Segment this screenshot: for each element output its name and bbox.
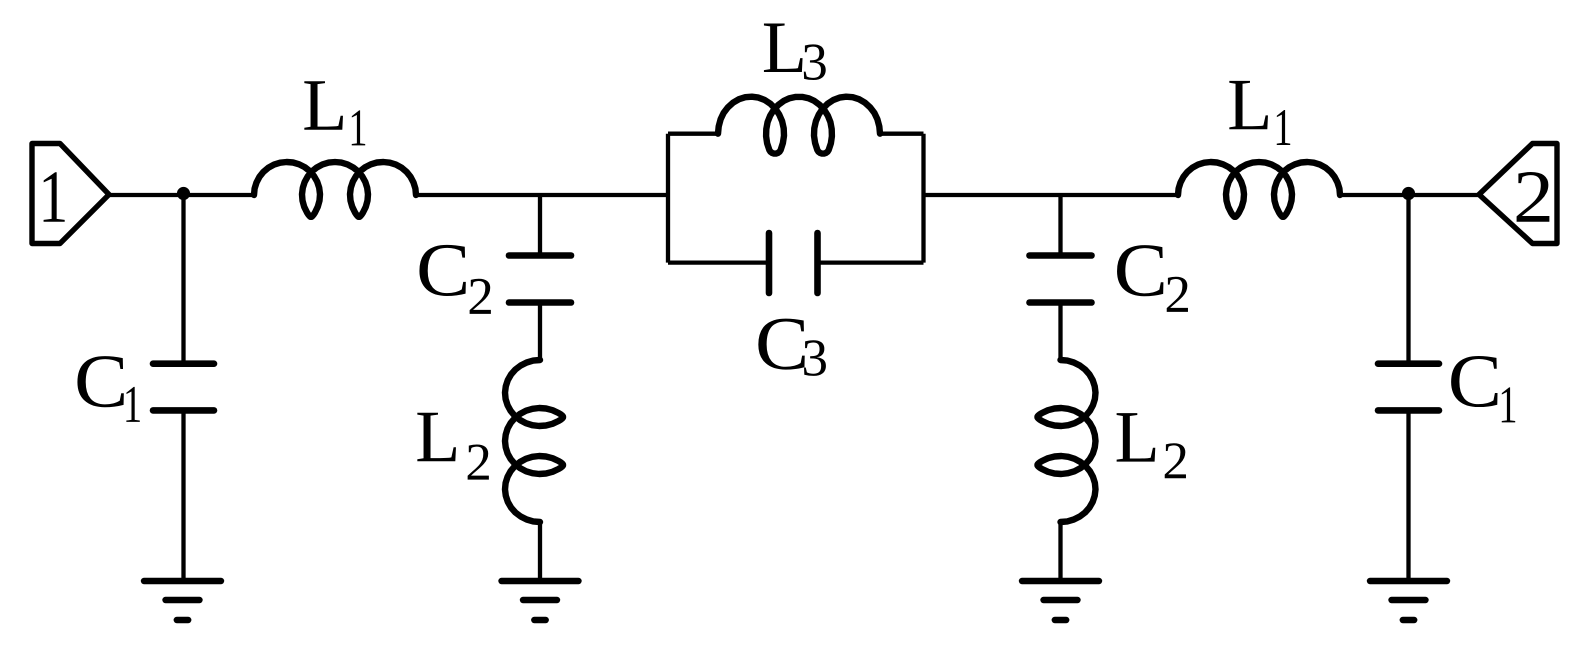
- capacitor C3 right plate: [814, 233, 821, 293]
- label C1 left: [77, 356, 123, 407]
- tank box bottom edge left part: [668, 260, 769, 264]
- label C2 right: [1117, 245, 1163, 296]
- port 2 symbol: [1479, 144, 1557, 244]
- label C2 left: [419, 245, 465, 296]
- capacitor C1 right bottom plate: [1378, 407, 1439, 414]
- capacitor C2 right bottom plate: [1030, 299, 1092, 306]
- wire: L1 to tank box left: [416, 193, 668, 197]
- node junction dot left (port1 node): [177, 187, 190, 200]
- port 1 numeral 1: [44, 172, 65, 222]
- label L3: [764, 24, 803, 72]
- wire: C1 left stub from node: [181, 195, 185, 364]
- port 1 symbol: [32, 144, 109, 244]
- label L1 left: [304, 81, 343, 129]
- capacitor C3 left plate: [766, 233, 773, 293]
- capacitor C1 right top plate: [1378, 360, 1439, 367]
- wire: C1 right to ground: [1406, 410, 1410, 581]
- tank box left edge: [666, 134, 670, 263]
- ground under C1 right: [1370, 578, 1447, 584]
- wire: C2 left upper stub: [538, 195, 542, 256]
- inductor L2 right coil: [1038, 360, 1096, 522]
- ground under L2 right: [1022, 578, 1099, 584]
- capacitor C2 left bottom plate: [509, 299, 571, 306]
- wire: C1 left to ground: [181, 410, 185, 581]
- wire: L2 left to ground: [538, 522, 542, 581]
- capacitor C1 left top plate: [153, 360, 214, 367]
- capacitor C2 right top plate: [1030, 252, 1092, 259]
- label C3: [758, 319, 804, 370]
- inductor L1 left coil: [254, 162, 416, 217]
- inductor L1 right coil: [1178, 162, 1340, 217]
- tank box top edge left part: [668, 132, 718, 136]
- wire: C2 right upper stub: [1058, 195, 1062, 256]
- capacitor C2 left top plate: [509, 252, 571, 259]
- inductor L3 coil: [718, 97, 880, 154]
- ground under L2 left: [502, 578, 579, 584]
- wire: L2 right to ground: [1058, 522, 1062, 581]
- wire: C2 left to L2 left: [538, 303, 542, 361]
- wire: main bus left segment port1 tip to L1: [109, 193, 254, 197]
- wire: tank box right to L1 right: [924, 193, 1179, 197]
- tank box bottom edge right part: [818, 260, 924, 264]
- capacitor C1 left bottom plate: [153, 407, 214, 414]
- tank box top edge right part: [880, 132, 924, 136]
- wire: C2 right to L2 right: [1058, 303, 1062, 361]
- node junction dot right (port2 node): [1402, 187, 1415, 200]
- label L2 right: [1117, 413, 1156, 461]
- tank box right edge: [921, 134, 925, 263]
- wire: L1 right to port2: [1340, 193, 1479, 197]
- wire: C1 right stub from node: [1406, 195, 1410, 364]
- inductor L2 left coil: [505, 360, 563, 522]
- port 2 numeral 2: [1517, 172, 1550, 222]
- label L2 left: [417, 413, 456, 461]
- label L1 right: [1229, 81, 1268, 129]
- ground under C1 left: [144, 578, 221, 584]
- label C1 right: [1451, 356, 1497, 407]
